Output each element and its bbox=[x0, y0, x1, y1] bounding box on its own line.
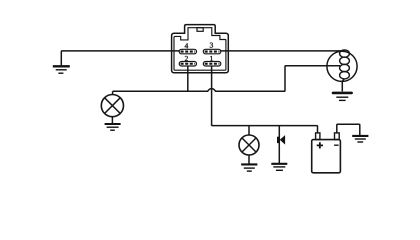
pin 3 contact bar bbox=[205, 50, 220, 52]
ground G5 (battery minus) bbox=[352, 136, 368, 142]
wire battery minus to ground bbox=[337, 124, 360, 135]
lamp L1 bottom stub bbox=[111, 117, 113, 124]
lamp L1 cross bbox=[105, 98, 121, 114]
lamp L2 cross bbox=[242, 138, 256, 152]
wire from pin 1 down (crosses bus with hop) bbox=[211, 66, 213, 126]
coil bottom lead to ground bbox=[342, 79, 344, 92]
diode D1 branch wire bbox=[278, 126, 280, 163]
pin number 3 bbox=[210, 43, 213, 48]
pin number 2 bbox=[185, 56, 188, 61]
coil M1 winding loops bbox=[340, 50, 350, 57]
ground G1 (left) bbox=[53, 66, 70, 73]
connector latch notch bbox=[197, 28, 203, 32]
bus wire: pin1 corner to battery plus bbox=[212, 125, 318, 133]
bus wire: lamp1 - pin2 junction - hop - corner - coil left bbox=[113, 66, 340, 92]
pin 2 contact bar bbox=[181, 63, 196, 65]
battery minus terminal tab bbox=[335, 133, 340, 140]
wire from pin 3 to coil top bbox=[221, 50, 345, 52]
ground G3 (lamp L2) bbox=[241, 164, 257, 171]
lamp L1 bulb bbox=[101, 95, 123, 117]
connector U1 outer housing bbox=[172, 25, 229, 73]
ground G2 (lamp L1) bbox=[105, 124, 121, 130]
battery plus terminal tab bbox=[316, 133, 320, 140]
coil M1 case circle bbox=[327, 51, 357, 81]
battery BT1 case bbox=[312, 140, 341, 173]
pin 4 body bbox=[179, 49, 196, 54]
ground G6 (coil) bbox=[333, 93, 352, 101]
diode D1 cathode bar bbox=[277, 137, 280, 143]
pin 2 body bbox=[179, 62, 196, 67]
lamp L2 top stub bbox=[248, 126, 250, 136]
battery minus sign bbox=[334, 144, 339, 146]
wire from pin 2 down bbox=[187, 66, 189, 91]
pin 3 body bbox=[203, 49, 221, 54]
pin 1 body bbox=[203, 62, 221, 67]
pin 1 contact bar bbox=[205, 63, 220, 65]
lamp L2 bottom stub bbox=[248, 155, 250, 164]
connector U1 inner housing bbox=[174, 28, 226, 70]
wire from pin 4 to left ground bbox=[61, 51, 179, 65]
pin number 4 bbox=[185, 43, 189, 48]
pin 4 contact bar bbox=[181, 50, 196, 52]
diode D1 anode triangle bbox=[280, 135, 285, 145]
battery plus sign bbox=[317, 142, 323, 148]
pin number 1 bbox=[210, 56, 213, 61]
lamp L2 bulb bbox=[239, 135, 259, 155]
ground G4 (diode) bbox=[271, 164, 287, 171]
lamp L1 top stub bbox=[112, 91, 114, 95]
